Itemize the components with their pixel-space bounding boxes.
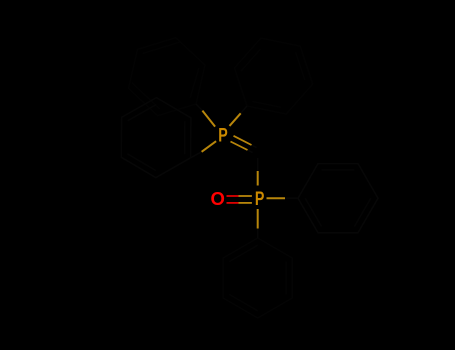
svg-text:P: P xyxy=(218,125,228,146)
svg-text:O: O xyxy=(211,188,225,209)
bond C-P2 (orange half, vertical) xyxy=(257,171,259,186)
bond P1-ring C carbon half (faint) xyxy=(191,152,202,158)
bond P1 up-right (orange half) xyxy=(230,113,241,126)
bond P2-ring E (orange half) xyxy=(257,209,259,229)
double bond P1=C carbon halves (faint) xyxy=(252,145,257,148)
svg-text:P: P xyxy=(255,189,265,210)
bond P1 down-left (orange half) xyxy=(202,141,217,152)
double bond O=P2 upper line: red half xyxy=(227,195,239,197)
bond P2-ring D (orange half) xyxy=(267,197,286,199)
bond P2-ring D carbon half (faint) xyxy=(285,197,298,199)
bond P2-ring E carbon half (faint) xyxy=(257,229,259,239)
double bond O=P2 upper line: orange half xyxy=(239,195,252,197)
bond P1-ring B carbon half (faint) xyxy=(196,104,202,111)
phenyl ring C (P1 left, faint) xyxy=(121,98,191,178)
phenyl ring E (P2 bottom, invisible black-on-black) xyxy=(223,238,292,318)
bond C-P2 carbon half (faint) xyxy=(257,158,259,171)
bond P1-ring A carbon half (faint) xyxy=(241,106,247,113)
double bond O=P2 lower line: red half xyxy=(227,202,239,204)
phenyl ring B (P1 upper-left, invisible black-on-black) xyxy=(129,38,206,116)
double bond P1=C line 2 (orange) xyxy=(231,142,248,151)
bond P1 up-left (orange half) xyxy=(202,111,215,127)
double bond P1=C line 1 (orange) xyxy=(234,136,252,145)
phenyl ring D (P2 right, faint) xyxy=(298,164,378,233)
phenyl ring A (P1 upper-right, invisible black-on-black) xyxy=(234,38,312,114)
double bond O=P2 lower line: orange half xyxy=(239,202,252,204)
